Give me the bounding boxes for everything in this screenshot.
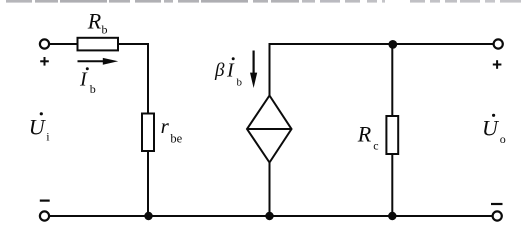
svg-text:c: c <box>373 138 378 152</box>
label Rc <box>357 121 379 152</box>
wire top of current source to top rail <box>269 43 271 96</box>
bottom rail <box>49 215 492 217</box>
svg-text:R: R <box>87 8 102 33</box>
label Rb <box>87 8 108 36</box>
label beta Ib of source <box>214 57 243 88</box>
scan artifact dashes top <box>6 0 521 3</box>
junction node at rbe/bottom rail <box>144 212 152 220</box>
wire bottom of current source to bottom rail <box>269 163 271 217</box>
label rbe <box>161 114 183 145</box>
junction node at source/bottom rail <box>265 212 273 220</box>
terminal input + (top-left) <box>40 39 49 48</box>
svg-text:o: o <box>500 132 506 146</box>
arrow current source direction <box>250 51 257 89</box>
svg-text:I: I <box>79 68 88 90</box>
polarity - at output <box>491 203 503 205</box>
svg-text:I: I <box>226 60 235 82</box>
polarity - at input <box>40 200 50 202</box>
svg-text:be: be <box>170 131 182 145</box>
resistor rbe <box>142 114 154 152</box>
svg-text:R: R <box>357 121 372 146</box>
svg-text:b: b <box>102 23 108 37</box>
label Uo <box>482 114 506 146</box>
svg-text:b: b <box>90 82 96 96</box>
junction node at Rc/bottom rail <box>388 212 396 220</box>
wire Rb to corner <box>118 43 149 45</box>
terminal input - (bottom-left) <box>40 211 49 220</box>
wire top rail to Rc <box>391 44 393 116</box>
terminal output + (top-right) <box>494 39 503 48</box>
wire Rc to bottom rail <box>391 154 393 216</box>
resistor Rc <box>386 116 398 154</box>
polarity + at output <box>493 60 502 69</box>
svg-text:b: b <box>237 76 243 88</box>
junction node at Rc/top rail <box>388 40 397 49</box>
resistor Rb <box>78 38 119 51</box>
wire rbe to bottom rail <box>147 151 149 216</box>
top rail right section <box>269 43 494 45</box>
polarity + at input <box>40 57 49 66</box>
wire corner down to rbe <box>147 43 149 114</box>
terminal output - (bottom-right) <box>493 211 502 220</box>
svg-text:i: i <box>46 130 50 144</box>
arrow current Ib <box>78 58 119 65</box>
wire input to Rb <box>49 43 77 45</box>
label Ui <box>29 112 51 143</box>
label Ib <box>79 67 96 96</box>
svg-text:r: r <box>161 114 170 138</box>
svg-text:U: U <box>482 116 500 141</box>
svg-text:U: U <box>29 115 47 140</box>
dependent current source diamond <box>247 96 292 163</box>
svg-text:β: β <box>214 60 225 81</box>
current source middle bar <box>247 128 292 130</box>
